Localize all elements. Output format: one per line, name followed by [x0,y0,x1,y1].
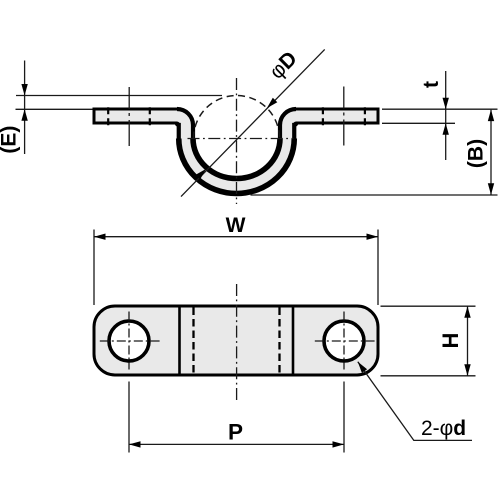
dimension B extension line bottom (saddle bottom) [251,194,498,196]
dimension W extension line right [377,230,379,306]
dimension B line [490,110,492,195]
dimension W line [94,236,378,238]
dimension t line [445,71,447,160]
hole left vertical centerline [128,312,130,370]
saddle U inner edge (thick) [177,109,296,179]
leader line 2-phid [358,362,472,441]
dimension W arrow left [94,234,106,240]
dimension t extension line bottom (foot bottom) [382,122,455,124]
leader arrow 2-phid [358,362,367,373]
plan view vertical centerline [236,284,238,401]
dimension P arrow right [333,441,345,447]
svg-text:(E): (E) [0,126,20,154]
dimension W extension line left [93,230,95,306]
svg-text:2-φd: 2-φd [421,417,466,440]
hole right [324,321,364,361]
dimension E extension line top (pipe top) [16,95,222,97]
dimension t arrow bottom [443,123,449,135]
plan view left hidden tangent line (dashed) [192,308,194,374]
svg-text:t: t [420,81,443,88]
dimension phiD arrow lower-left [196,169,206,179]
saddle inner bottom arc (extra weight) [193,139,280,179]
dimension H extension line top [381,305,476,307]
dimension P line [129,443,344,445]
dimension E line [24,61,26,155]
dimension H line [467,306,469,376]
dimension t arrow top [443,98,449,110]
dimension B arrow bottom [488,183,494,195]
plan view left bend line (solid) [178,308,181,374]
hole left horizontal centerline [100,340,160,342]
plan view plate [94,306,378,375]
hole left [109,321,149,361]
left foot hole centerline [128,87,130,147]
dimension E extension line bottom (foot top) [16,108,93,110]
pipe circle phantom (dashed, top half) [194,96,280,139]
plan view right hidden tangent line (dashed) [278,308,280,374]
svg-text:W: W [226,214,246,237]
hole right horizontal centerline [315,340,375,342]
dimension H arrow top [464,306,470,318]
right foot hole centerline [343,87,345,147]
saddle outer bottom arc (extra weight) [179,139,295,194]
dimension E arrow top [21,84,27,96]
svg-text:(B): (B) [464,139,487,168]
dimension P extension line left [128,382,130,453]
saddle U outer edge (thick) [177,123,297,194]
svg-text:H: H [438,333,463,349]
saddle clamp side view body [94,109,378,194]
dimension W arrow right [367,234,379,240]
dimension B arrow top [488,110,494,122]
dimension P arrow left [129,441,141,447]
dimension E arrow bottom [21,109,27,121]
svg-text:P: P [228,419,243,444]
dimension P extension line right [343,382,345,453]
saddle horizontal centerline [188,138,294,140]
hole right vertical centerline [343,312,345,370]
right foot hidden hole edge ticks [322,107,324,128]
dimension phiD diagonal line [181,49,325,196]
dimension t extension line top (foot top, shared with B) [382,108,498,110]
saddle vertical centerline [236,78,238,204]
left foot hidden hole edge ticks [107,107,109,128]
plan view right bend line (solid) [292,308,295,374]
dimension phiD arrow upper-right [267,98,277,108]
dimension H arrow bottom [464,364,470,376]
dimension H extension line bottom [381,375,476,377]
